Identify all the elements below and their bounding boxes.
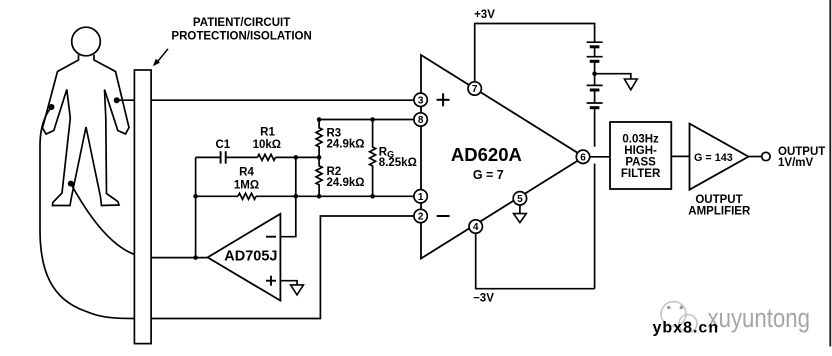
svg-text:2: 2 [418,212,424,223]
ground at pin 5 [514,214,527,223]
wire: pin 6 to filter [590,156,610,158]
AD620A plus sign (pin 3) [437,99,450,101]
node: R2 bottom [317,194,322,199]
node: R3/R2 junction [317,155,322,160]
svg-text:R1: R1 [260,126,275,138]
output amplifier triangle [690,124,749,190]
svg-text:8.25kΩ: 8.25kΩ [379,157,417,169]
op-amp AD705J [208,214,281,301]
electrode left leg [68,181,74,187]
wire: AD705J output to bar [151,257,209,259]
svg-text:3: 3 [418,95,424,106]
wire: mid vertical to AD705J inverting input [281,157,296,236]
svg-text:1MΩ: 1MΩ [234,179,259,191]
wire: AD705J + input to ground [280,281,297,285]
ground at AD705J + input [291,285,304,295]
svg-text:−3V: −3V [473,293,494,305]
wire: top horizontal to C1 [196,156,221,158]
svg-text:5: 5 [517,194,523,205]
wire: left vertical (C1/R4 left) [195,157,197,257]
svg-text:C1: C1 [215,139,230,151]
resistor R3 [316,120,322,158]
svg-text:G = 7: G = 7 [473,168,504,182]
arrow to isolation bar [157,49,168,63]
pin 1 [414,190,427,203]
svg-text:24.9kΩ: 24.9kΩ [327,139,365,151]
svg-text:HIGH-: HIGH- [624,145,657,157]
electrode left arm [49,104,55,110]
AD705J minus sign [266,236,276,238]
svg-text:8: 8 [418,115,424,126]
watermark logo circles [661,302,697,333]
node: R3 top [317,117,322,122]
wire: filter to output amplifier [671,155,689,157]
right border line [829,0,831,347]
AD705J plus sign [266,280,276,282]
wire: right-arm electrode to pin 3 (+ input) [117,99,416,101]
svg-text:4: 4 [473,222,479,233]
electrode right arm [114,97,120,103]
pin 4 [469,220,482,233]
watermark logo eyes [667,306,683,309]
wire: C1 to R1 [226,156,258,158]
svg-text:24.9kΩ: 24.9kΩ [327,177,365,189]
wire: +3V supply to pin 7 [475,24,595,83]
wire: bottom horizontal (pin 1 line) [196,195,238,197]
wire: battery bottom to -3V rail (with hop gap) [594,108,596,147]
wire: pin 4 to -3V rail [476,233,595,289]
pin 8 [414,113,427,126]
high-pass filter box [610,122,671,189]
pin 7 [468,82,481,95]
resistor RG [370,120,376,197]
wire: pin 5 to ground [519,205,521,214]
human body figure [72,27,101,56]
wire: left-leg electrode to AD705J output line [71,184,152,258]
svg-text:PROTECTION/ISOLATION: PROTECTION/ISOLATION [171,30,311,42]
svg-text:0.03Hz: 0.03Hz [622,134,659,146]
node: R4 right [294,194,299,199]
svg-text:6: 6 [580,152,586,163]
node: RG top [370,117,375,122]
svg-text:PASS: PASS [625,157,656,169]
capacitor C1 [220,151,222,163]
svg-text:AD705J: AD705J [224,248,277,264]
svg-text:OUTPUT: OUTPUT [695,194,742,206]
wire: pin 8 horizontal [319,119,416,121]
node: R4 left [193,194,198,199]
AD620A minus sign (pin 2) [437,215,450,217]
svg-text:7: 7 [472,84,478,95]
battery stack [587,42,603,108]
svg-text:FILTER: FILTER [621,168,661,180]
resistor R1 [258,154,276,160]
svg-text:1V/mV: 1V/mV [778,157,813,169]
svg-text:xuyuntong: xuyuntong [708,303,811,333]
svg-text:PATIENT/CIRCUIT: PATIENT/CIRCUIT [193,17,290,29]
ground at battery tap [624,79,637,90]
svg-text:1: 1 [418,192,424,203]
node: battery center tap [592,71,597,76]
wire: left-arm electrode loop to pin 2 (- input) [40,107,416,319]
svg-text:AD620A: AD620A [451,144,522,165]
node: RG bottom [370,194,375,199]
wire: R1 to R3/R2 junction [276,156,320,158]
wire: amplifier to output terminal [749,156,762,158]
wire: battery tap to ground [595,74,631,79]
svg-text:ybx8.cn: ybx8.cn [653,320,720,337]
resistor R2 [316,157,322,196]
node: R1/R4 feedback junction [294,155,299,160]
pin 2 [414,209,427,222]
pin 5 [513,192,526,205]
in-amp AD620A [421,55,584,259]
pin 6 [576,150,589,163]
patient/circuit isolation bar [134,70,151,344]
svg-text:R4: R4 [239,167,254,179]
pin 3 [414,93,427,106]
resistor R4 [238,193,256,199]
svg-text:10kΩ: 10kΩ [253,139,281,151]
output terminal [762,152,770,160]
svg-text:+3V: +3V [474,9,495,21]
node: output junction [193,255,198,260]
svg-text:AMPLIFIER: AMPLIFIER [688,205,751,217]
svg-text:G = 143: G = 143 [694,152,733,164]
